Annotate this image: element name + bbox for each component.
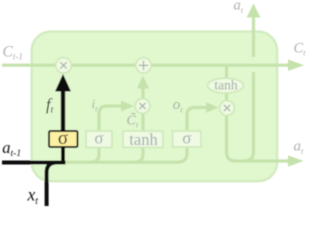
- wire: a_t right output arrowhead: [288, 155, 304, 167]
- box: tanh gate: [123, 131, 163, 148]
- wire: input bus below boxes: [64, 148, 187, 163]
- wire: a_t upward branch (upper segment past C line gap): [252, 17, 255, 57]
- node: add circle +: [136, 58, 151, 73]
- wire: input x_t (black, curves into junction): [47, 163, 64, 207]
- svg-text:at: at: [294, 139, 305, 157]
- wire: cell state line C (horizontal): [2, 64, 288, 67]
- node: output product circle x: [220, 101, 235, 116]
- wire: output path down from product node and right to a_t: [227, 116, 289, 162]
- LSTM cell body: [32, 32, 277, 182]
- wire: C line branch down to tanh ellipse: [225, 66, 228, 79]
- node: candidate product circle x: [135, 99, 150, 114]
- wire: bus branch into tanh box: [135, 148, 143, 163]
- box: sigma-i gate: [86, 131, 112, 148]
- svg-text:Ct: Ct: [294, 41, 307, 58]
- node: tanh ellipse: [208, 78, 244, 93]
- wire: bus branch into sigma-i box: [91, 148, 99, 163]
- wire: junction up into forget sigma box: [61, 146, 65, 164]
- box: forget gate sigma (yellow): [49, 131, 78, 147]
- wire: product node up-arrow into add node: [141, 88, 144, 99]
- wire: input a_{t-1} (black horizontal): [2, 161, 66, 165]
- svg-text:tanh: tanh: [129, 130, 158, 149]
- svg-text:at: at: [234, 0, 244, 15]
- wire: a_t upward branch (lower segment): [244, 72, 254, 161]
- wire: tanh ellipse to output product node: [225, 93, 228, 101]
- svg-text:at-1: at-1: [2, 138, 21, 159]
- wire: candidate C tilde path from tanh box up to product node: [141, 114, 144, 131]
- svg-text:σ: σ: [58, 128, 68, 149]
- svg-text:σ: σ: [94, 129, 103, 148]
- svg-text:xt: xt: [27, 185, 39, 208]
- wire: a_t top arrowhead: [247, 4, 261, 18]
- box: sigma-o gate: [173, 131, 202, 147]
- node: forget product circle x: [56, 58, 72, 74]
- wire: i_t path from sigma-i box to candidate product node: [99, 106, 122, 131]
- svg-text:σ: σ: [182, 128, 191, 147]
- wire: forget gate output up to product node (black arrow): [61, 91, 65, 133]
- svg-text:tanh: tanh: [214, 78, 237, 93]
- svg-text:Ct-1: Ct-1: [3, 44, 23, 62]
- wire: o_t path from sigma-o box to output product node: [187, 108, 206, 132]
- wire: C line output arrowhead: [288, 59, 304, 71]
